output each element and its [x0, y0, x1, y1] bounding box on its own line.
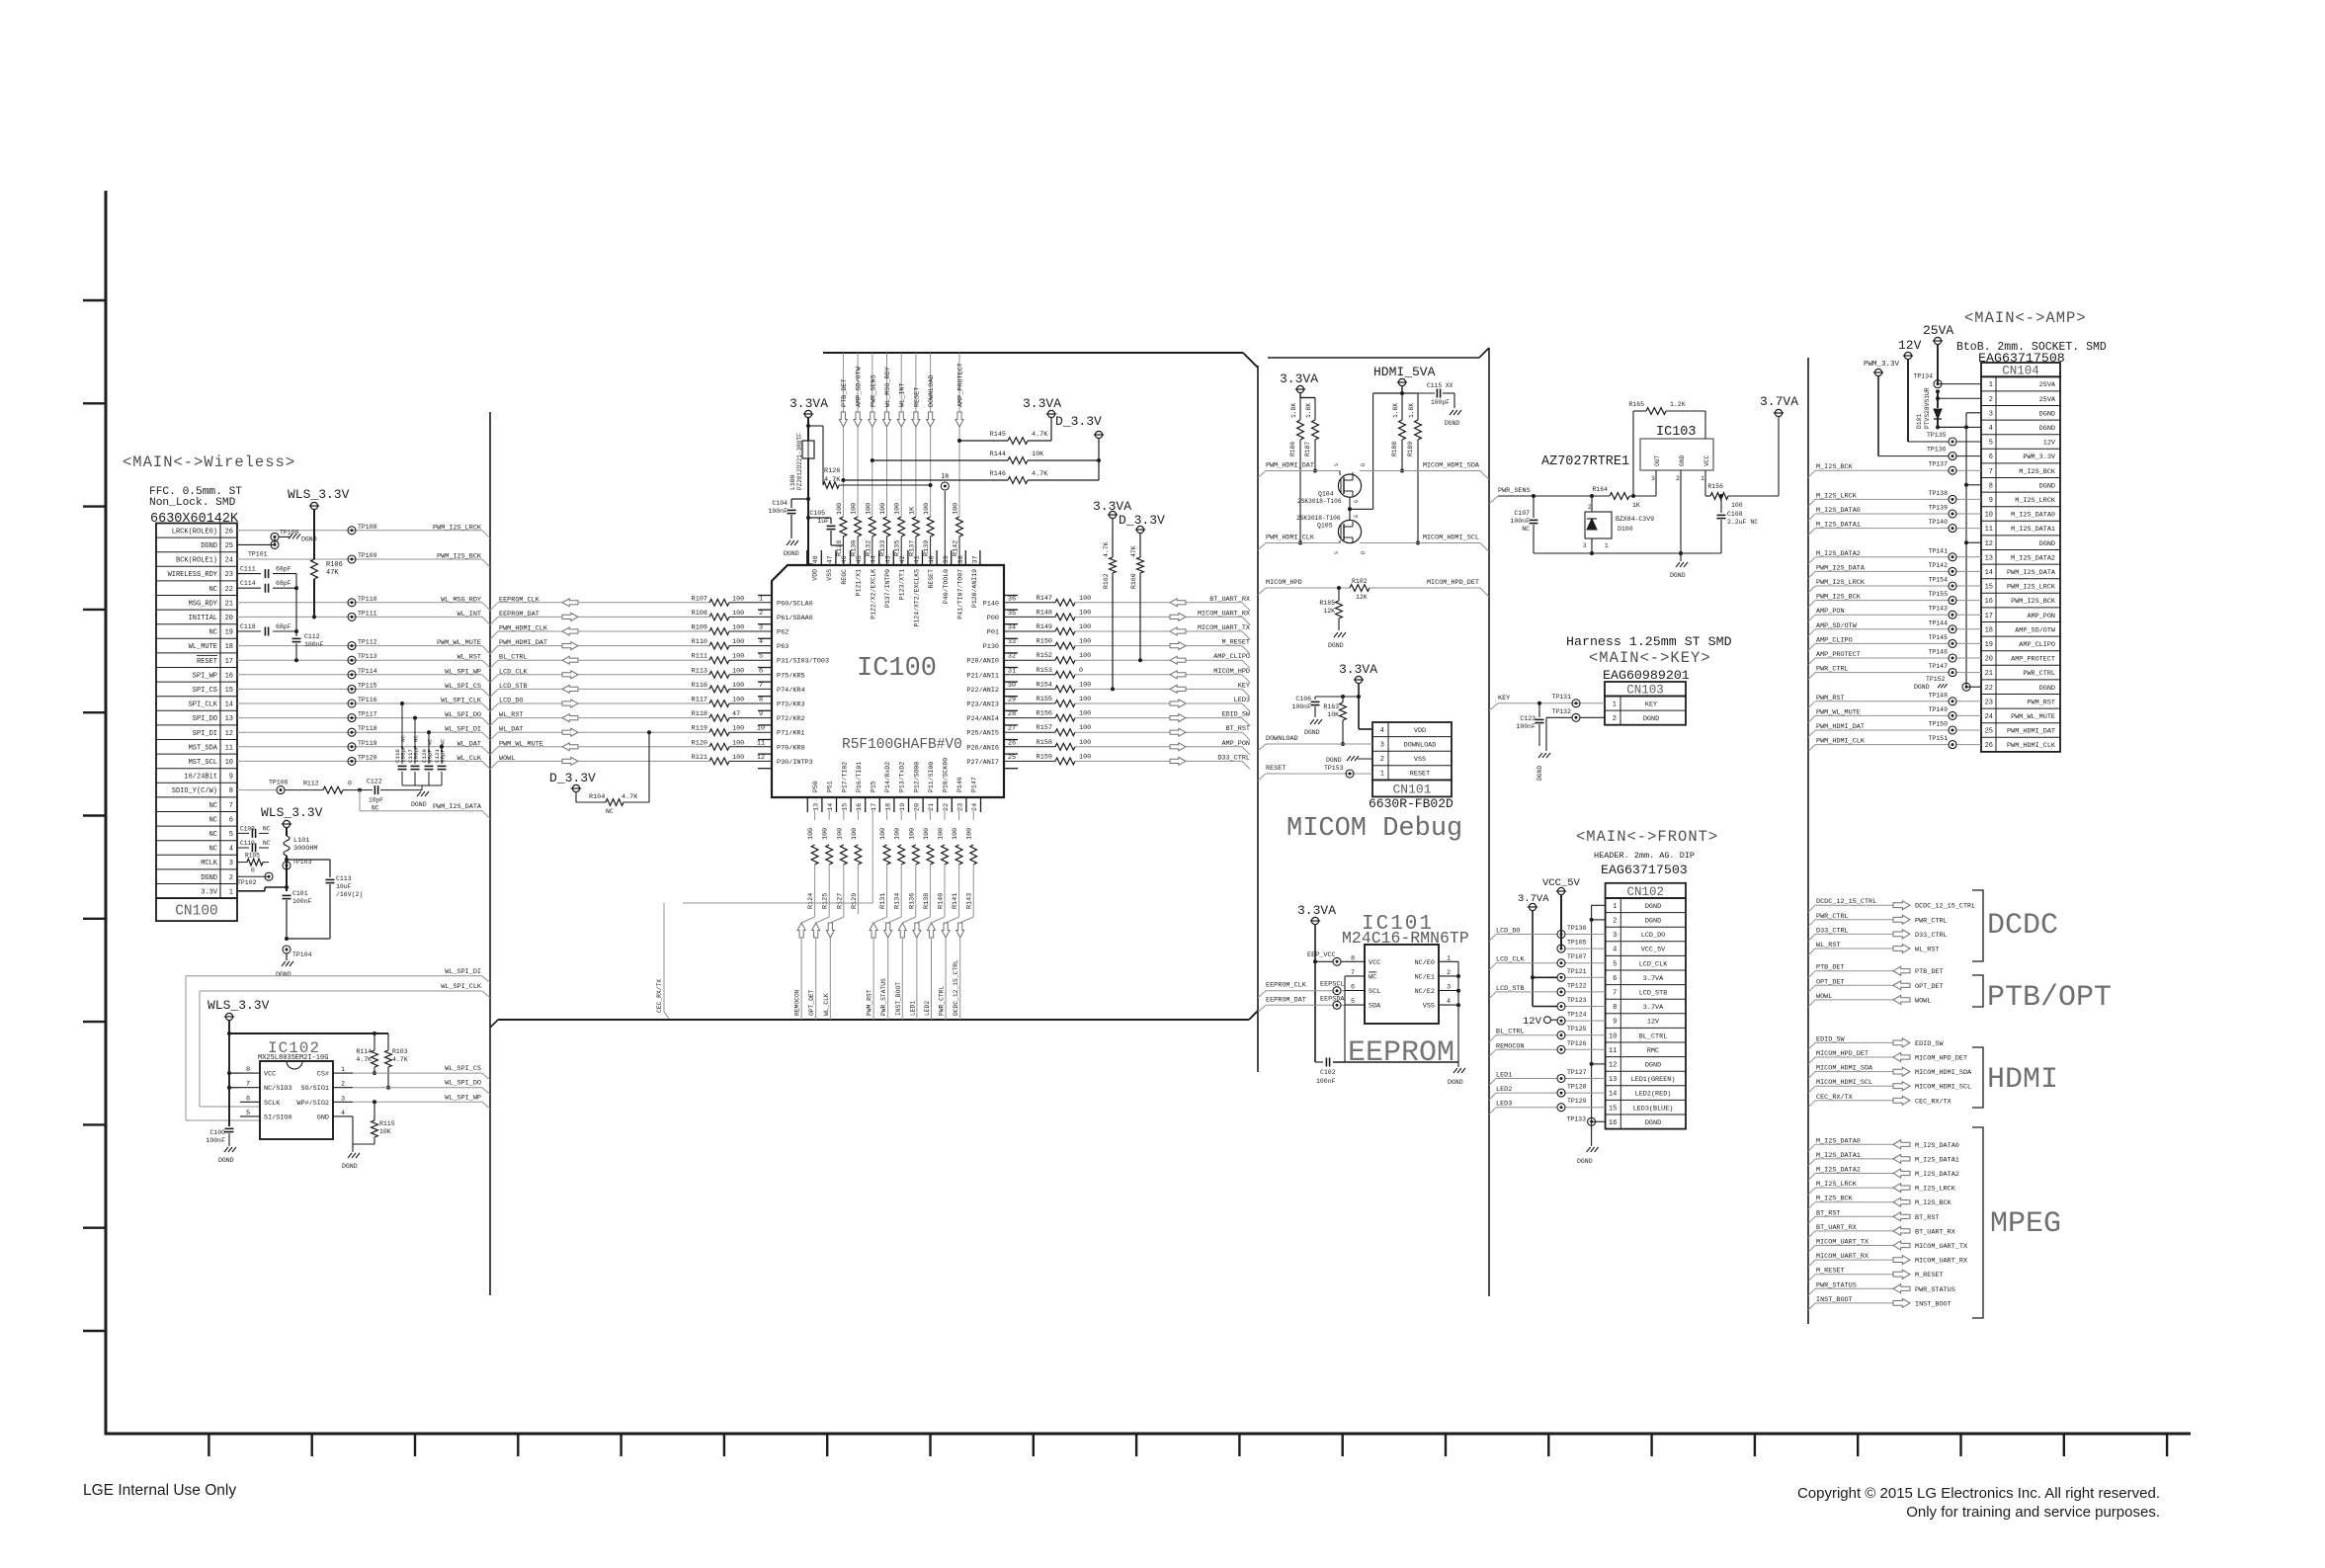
wire diagonal PWR_CTRL from resistor column: [946, 914, 959, 923]
power 3.3VA right of top columns: [1023, 396, 1061, 418]
svg-text:CEC_RX/TX: CEC_RX/TX: [656, 979, 663, 1013]
svg-text:VSS: VSS: [826, 569, 833, 581]
svg-text:R147: R147: [1037, 595, 1052, 603]
svg-text:22: 22: [1985, 685, 1993, 693]
svg-text:P74/KR4: P74/KR4: [777, 687, 805, 695]
wire net WOWL from wireless border: [490, 755, 562, 770]
svg-text:TP141: TP141: [1928, 547, 1948, 554]
svg-text:C105: C105: [809, 510, 825, 517]
svg-text:NC: NC: [263, 840, 271, 847]
section title MAIN-KEY: [1589, 649, 1711, 667]
svg-text:24: 24: [971, 803, 979, 811]
svg-text:68pF: 68pF: [276, 566, 291, 573]
svg-text:PWM_I2S_LRCK: PWM_I2S_LRCK: [2007, 584, 2056, 592]
svg-text:22: 22: [943, 803, 951, 811]
testpoint TP115: [348, 682, 377, 693]
svg-text:NC: NC: [263, 825, 271, 832]
svg-text:28: 28: [1008, 710, 1016, 718]
wire MICOM_HDMI_SDA: [1360, 462, 1489, 480]
svg-text:100: 100: [732, 595, 744, 603]
svg-text:VCC: VCC: [1703, 454, 1710, 466]
footer text LGE Internal Use Only: [83, 1482, 236, 1499]
testpoint TP138: [1928, 490, 1956, 504]
wire LCD_CLK to resistor R113: [578, 674, 709, 676]
svg-text:TP112: TP112: [358, 639, 377, 646]
svg-text:BL_CTRL: BL_CTRL: [1639, 1032, 1668, 1040]
svg-text:AZ7027RTRE1: AZ7027RTRE1: [1541, 454, 1629, 469]
svg-text:21: 21: [225, 600, 233, 608]
svg-text:100: 100: [732, 667, 744, 675]
wire net PWM_HDMI_CLK to CN104 pin 26: [1808, 738, 1981, 752]
svg-text:R109: R109: [692, 624, 707, 632]
testpoint TP137: [1928, 461, 1956, 475]
capacitor C120 68pF NC: [421, 730, 434, 785]
svg-text:R112: R112: [303, 781, 319, 787]
svg-text:SO/SIO1: SO/SIO1: [300, 1085, 329, 1093]
wire net DCDC_12_15_CTRL to bottom bus: [953, 938, 960, 1020]
svg-text:R144: R144: [990, 451, 1006, 458]
resistor R146 4.7K: [841, 458, 1101, 483]
transistor Q105 2SK3018-T106: [1296, 515, 1367, 554]
svg-text:R120: R120: [692, 739, 707, 747]
svg-text:25VA: 25VA: [2039, 396, 2056, 404]
svg-text:D_3.3V: D_3.3V: [1119, 513, 1165, 528]
svg-text:CN100: CN100: [175, 904, 218, 920]
svg-text:LCD_STB: LCD_STB: [1639, 990, 1668, 998]
svg-text:PWM_HDMI_CLK: PWM_HDMI_CLK: [1266, 535, 1315, 542]
svg-text:7: 7: [229, 802, 233, 810]
label EEPROM big: [1348, 1036, 1454, 1070]
wire PWM_HDMI_DAT to resistor R110: [578, 645, 709, 647]
svg-text:DGND: DGND: [201, 542, 217, 550]
svg-text:16/24Bit: 16/24Bit: [184, 774, 217, 782]
testpoint TP104: [283, 946, 312, 958]
testpoint TP120: [348, 754, 377, 765]
testpoint TP106: [269, 780, 289, 794]
svg-text:100: 100: [732, 739, 744, 747]
arrow chevron MICOM_HPD_DET: [1893, 1053, 1910, 1062]
svg-text:WL_RST: WL_RST: [457, 654, 481, 662]
arrow chevron OPT_DET: [1893, 981, 1910, 990]
svg-text:37: 37: [972, 555, 980, 563]
svg-text:WL_SPI_DO: WL_SPI_DO: [445, 1080, 481, 1088]
svg-text:P31/SI03/TO03: P31/SI03/TO03: [777, 658, 829, 666]
svg-text:R133: R133: [879, 540, 887, 556]
resistor R127 100: [836, 810, 847, 914]
ground DGND below IC103: [1670, 562, 1688, 579]
wire CN102 pin 10 TP125: [1489, 1029, 1606, 1042]
testpoint TP132: [1551, 708, 1580, 721]
svg-text:3.3VA: 3.3VA: [1297, 903, 1336, 918]
testpoint TP105: [1557, 940, 1587, 953]
wire WL_SPI_CLK routing loop: [200, 983, 490, 1107]
wire CN102 pin 13 TP127: [1489, 1072, 1606, 1086]
svg-text:R114: R114: [356, 1048, 372, 1055]
svg-text:RESET: RESET: [913, 387, 921, 407]
svg-text:20: 20: [225, 615, 233, 622]
arrow chevron DCDC_12_15_CTRL: [1893, 901, 1910, 910]
svg-text:47K: 47K: [326, 569, 339, 577]
svg-text:P00: P00: [987, 615, 999, 622]
svg-text:WL_SPI_DO: WL_SPI_DO: [445, 711, 481, 719]
svg-text:12V: 12V: [1898, 338, 1922, 353]
resistor R153 0: [1004, 667, 1083, 678]
testpoint TP154: [1928, 577, 1956, 591]
svg-text:REMOCON: REMOCON: [794, 989, 801, 1016]
wire section border left (wireless bus): [489, 412, 491, 1295]
svg-text:LED3: LED3: [1234, 697, 1250, 704]
svg-text:AMP_SD/OTW: AMP_SD/OTW: [856, 366, 864, 407]
svg-text:100: 100: [894, 503, 902, 515]
wire PWM_HDMI_CLK: [1258, 535, 1340, 550]
svg-text:PWM_I2S_BCK: PWM_I2S_BCK: [437, 553, 482, 561]
svg-text:R125: R125: [822, 893, 830, 909]
svg-text:3.3V: 3.3V: [201, 888, 218, 896]
arrow chevron D33_CTRL: [1170, 757, 1186, 765]
wire net WL_RST (to DCDC): [1808, 942, 1939, 955]
ground DGND below IC102 pin4: [342, 1153, 360, 1170]
svg-text:R143: R143: [966, 893, 974, 909]
wire net LED2 to bottom bus: [924, 938, 932, 1020]
svg-text:SCL: SCL: [1369, 988, 1380, 996]
svg-text:MICOM Debug: MICOM Debug: [1287, 814, 1462, 844]
testpoint TP143: [1928, 606, 1956, 619]
svg-text:12: 12: [1609, 1062, 1617, 1070]
svg-text:13: 13: [1609, 1076, 1617, 1084]
resistor R136 100: [908, 810, 919, 914]
svg-text:14: 14: [1609, 1091, 1617, 1099]
testpoint TP131: [1551, 694, 1580, 707]
svg-text:1: 1: [229, 888, 233, 896]
svg-text:2: 2: [1989, 396, 1993, 404]
svg-text:12V: 12V: [1647, 1019, 1660, 1027]
wire net WL_DAT from wireless border: [490, 726, 562, 741]
svg-text:3: 3: [229, 860, 233, 867]
resistor R132 100: [865, 503, 877, 565]
resistor R104 4.7K NC: [576, 730, 651, 815]
svg-text:8: 8: [1989, 482, 1993, 490]
resistor R157 100: [1004, 724, 1091, 735]
wire net PWM_HDMI_DAT from wireless border: [490, 639, 562, 654]
svg-text:100: 100: [1079, 638, 1091, 646]
wire BT_UART_RX to border: [1075, 596, 1258, 611]
svg-text:R127: R127: [836, 893, 844, 909]
resistor R135 100: [894, 503, 907, 565]
svg-text:P12/SO00: P12/SO00: [913, 762, 920, 792]
svg-text:TP117: TP117: [358, 711, 377, 718]
svg-text:C100: C100: [209, 1129, 225, 1136]
wire net AMP_SD/OTW from top bus: [856, 353, 864, 517]
resistor R141 100: [952, 810, 962, 914]
svg-text:25: 25: [1985, 728, 1993, 736]
capacitor C111 68pF: [237, 566, 296, 579]
wire MICOM_HPD: [1258, 579, 1350, 595]
svg-text:MICOM_HDMI_SCL: MICOM_HDMI_SCL: [1915, 1084, 1971, 1092]
wire CN102 pin 11 TP126: [1489, 1042, 1606, 1056]
testpoint TP112: [348, 639, 377, 650]
arrow chevron BT_RST: [1170, 728, 1186, 736]
svg-text:11: 11: [225, 744, 233, 752]
svg-text:DGND: DGND: [1326, 757, 1342, 764]
svg-text:100: 100: [1079, 595, 1091, 603]
svg-text:TP114: TP114: [358, 668, 377, 675]
wire CN100 pin 16 net WL_SPI_WP: [237, 668, 490, 683]
svg-text:1uF: 1uF: [817, 518, 829, 525]
svg-text:PWM_HDMI_DAT: PWM_HDMI_DAT: [1266, 462, 1314, 470]
svg-text:100: 100: [732, 653, 744, 661]
wire net EDID_SW (to HDMI): [1808, 1035, 1944, 1049]
wire diagonal OPT_DET from resistor column: [816, 914, 830, 923]
svg-text:1: 1: [341, 1066, 345, 1074]
footer copyright line 1: [1797, 1485, 2160, 1502]
svg-text:7: 7: [1613, 990, 1617, 998]
svg-text:TP109: TP109: [358, 552, 377, 559]
resistor R185 12K: [1319, 586, 1342, 630]
svg-text:P123/XT1: P123/XT1: [899, 569, 906, 600]
svg-text:EEPROM_DAT: EEPROM_DAT: [1266, 996, 1306, 1004]
svg-text:DCDC_12_15_CTRL: DCDC_12_15_CTRL: [953, 959, 959, 1016]
svg-text:M_I2S_LRCK: M_I2S_LRCK: [1915, 1186, 1956, 1194]
svg-text:BT_RST: BT_RST: [1226, 725, 1250, 733]
svg-text:3: 3: [1989, 410, 1993, 418]
svg-text:WLS_3.3V: WLS_3.3V: [208, 998, 270, 1013]
svg-text:MICOM_HPD_DET: MICOM_HPD_DET: [1427, 579, 1479, 587]
arrow chevron MICOM_UART_TX: [1170, 627, 1186, 635]
svg-text:P24/ANI4: P24/ANI4: [966, 715, 999, 723]
svg-text:GND: GND: [317, 1114, 329, 1121]
svg-text:P20/ANI0: P20/ANI0: [966, 658, 999, 666]
svg-text:20: 20: [1985, 656, 1993, 664]
svg-text:100: 100: [894, 828, 902, 840]
svg-text:EEPROM: EEPROM: [1348, 1036, 1454, 1070]
capacitor C106 100nF: [1291, 684, 1361, 729]
svg-text:MICOM_HPD: MICOM_HPD: [1266, 579, 1302, 587]
wire 25VA to CN104 pins 1 2: [1936, 345, 1981, 399]
testpoint TP141: [1928, 547, 1956, 561]
svg-text:OPT_DET: OPT_DET: [1915, 983, 1944, 991]
svg-text:PTB/OPT: PTB/OPT: [1987, 981, 2112, 1015]
resistor R124 100: [807, 810, 818, 914]
svg-text:R156: R156: [1037, 710, 1052, 718]
svg-text:TP140: TP140: [1928, 519, 1948, 526]
resistor R133 100: [879, 503, 892, 565]
svg-text:48: 48: [812, 555, 820, 563]
svg-text:GND: GND: [1679, 454, 1686, 466]
svg-text:0: 0: [348, 781, 352, 787]
capacitor C105 1uF: [806, 510, 843, 553]
svg-text:PWM_RST: PWM_RST: [2027, 699, 2055, 706]
svg-text:DOWNLOAD: DOWNLOAD: [1266, 735, 1298, 743]
svg-text:TP149: TP149: [1928, 706, 1948, 713]
svg-text:P72/KR2: P72/KR2: [777, 715, 805, 723]
connector CN103: [1605, 682, 1686, 725]
wire diagonal LED1 from resistor column: [917, 914, 931, 923]
arrow chevron M_I2S_LRCK: [1893, 1184, 1910, 1193]
svg-text:P71/KR1: P71/KR1: [777, 730, 805, 738]
svg-text:RESET: RESET: [928, 569, 935, 589]
svg-text:RMC: RMC: [1647, 1047, 1659, 1055]
svg-text:100: 100: [879, 503, 887, 515]
svg-text:3: 3: [1380, 742, 1384, 750]
svg-text:MICOM_HDMI_SDA: MICOM_HDMI_SDA: [1423, 462, 1480, 470]
svg-text:P13/TxD2: P13/TxD2: [899, 762, 906, 792]
svg-text:8: 8: [759, 697, 763, 704]
svg-text:D101: D101: [1916, 414, 1923, 429]
svg-text:TP144: TP144: [1928, 619, 1948, 626]
svg-text:R152: R152: [1037, 652, 1052, 660]
wire CN100 pin 10 net WL_CLK: [237, 755, 490, 770]
svg-text:12K: 12K: [1323, 608, 1335, 615]
svg-text:L101: L101: [293, 837, 309, 845]
arrow chevron EEPROM_CLK: [562, 599, 578, 607]
svg-text:3.7VA: 3.7VA: [1643, 1004, 1664, 1012]
svg-text:12V: 12V: [1523, 1016, 1542, 1028]
svg-text:11: 11: [1609, 1047, 1617, 1055]
svg-text:100: 100: [953, 503, 960, 515]
svg-text:P14/RxD2: P14/RxD2: [884, 762, 891, 792]
svg-text:NC/SIO3: NC/SIO3: [264, 1085, 292, 1093]
wire net PWM_RST to CN104 pin 23: [1808, 695, 1981, 708]
svg-text:DGND: DGND: [1670, 572, 1686, 579]
svg-text:P30/INTP3: P30/INTP3: [777, 759, 813, 767]
svg-text:NC: NC: [209, 802, 217, 810]
svg-text:2: 2: [1447, 969, 1451, 977]
svg-text:TP125: TP125: [1567, 1026, 1587, 1032]
svg-text:4.7K: 4.7K: [1103, 541, 1110, 557]
svg-text:BT_UART_RX: BT_UART_RX: [1915, 1228, 1955, 1236]
svg-text:39: 39: [943, 555, 951, 563]
wire CN102 pin 15 TP129: [1489, 1101, 1606, 1114]
svg-text:TP122: TP122: [1567, 982, 1587, 989]
wire net WL_RST from wireless border: [490, 711, 562, 726]
svg-text:P60/SCLA0: P60/SCLA0: [777, 600, 813, 608]
svg-text:TP108: TP108: [358, 524, 377, 531]
svg-text:D33_CTRL: D33_CTRL: [1217, 754, 1250, 762]
wire net PWM_WL_MUTE to CN104 pin 24: [1808, 708, 1981, 722]
arrow chevron LED3: [1170, 700, 1186, 707]
svg-text:DGND: DGND: [2039, 425, 2055, 433]
svg-text:TP106: TP106: [269, 780, 289, 786]
svg-text:LED2: LED2: [924, 1001, 931, 1016]
svg-text:C115 XX: C115 XX: [1427, 382, 1453, 389]
svg-text:BT_UART_RX: BT_UART_RX: [1209, 596, 1250, 604]
wire KEY to CN103 pin1: [1489, 695, 1605, 710]
svg-text:R135: R135: [894, 540, 902, 556]
power 3.3VA (level shifter): [1280, 371, 1318, 393]
svg-text:2: 2: [1613, 918, 1617, 926]
testpoint TP110: [348, 596, 377, 607]
svg-text:DOWNLOAD: DOWNLOAD: [928, 374, 936, 407]
power 3.3VA (eeprom): [1297, 903, 1336, 925]
arrow chevron BT_UART_RX: [1893, 1226, 1910, 1235]
svg-text:17: 17: [1985, 613, 1993, 620]
svg-text:TP150: TP150: [1928, 721, 1948, 728]
svg-text:WLS_3.3V: WLS_3.3V: [288, 487, 350, 502]
wire net INST_BOOT to bottom bus: [895, 938, 903, 1020]
svg-text:24: 24: [225, 557, 233, 565]
svg-text:TP152: TP152: [1926, 676, 1946, 683]
svg-text:PWR_CTRL: PWR_CTRL: [2023, 670, 2055, 678]
wire EEPROM_CLK EEPSCL: [1258, 981, 1345, 998]
svg-text:R102: R102: [1352, 578, 1368, 585]
testpoint TP151: [1928, 735, 1956, 749]
wire net DOWNLOAD from top bus: [928, 353, 936, 517]
wire net WL_INT from top bus: [899, 353, 907, 517]
svg-text:TP134: TP134: [1913, 373, 1933, 380]
svg-text:DGND: DGND: [2039, 685, 2055, 693]
wire CN102 pin 3 TP130: [1489, 928, 1606, 942]
svg-text:100nF: 100nF: [206, 1137, 225, 1144]
svg-text:R154: R154: [1037, 681, 1052, 689]
svg-text:R185: R185: [1319, 600, 1335, 607]
svg-text:TP138: TP138: [1928, 490, 1948, 497]
svg-text:RESET: RESET: [197, 658, 217, 666]
arrow chevron MICOM_HDMI_SCL: [1893, 1082, 1910, 1091]
pin dividers on IC100 left and right edges: [758, 596, 1018, 769]
wire Q104 gate: [1349, 497, 1351, 520]
arrow chevron LED2: [928, 923, 936, 938]
svg-text:VDD: VDD: [1414, 727, 1426, 735]
testpoint TP148: [1928, 692, 1956, 705]
svg-text:R140: R140: [938, 893, 946, 909]
svg-text:4: 4: [1613, 947, 1617, 954]
svg-text:100: 100: [1079, 696, 1091, 703]
svg-text:C101: C101: [292, 890, 308, 897]
arrow chevron PWR_CTRL: [942, 923, 950, 938]
svg-text:TP143: TP143: [1928, 606, 1948, 613]
power WLS_3.3V (top): [288, 487, 350, 510]
connector CN102 EAG63717503: [1606, 883, 1686, 1129]
svg-text:R160: R160: [1130, 573, 1137, 589]
arrow chevron LCD_DO: [562, 700, 578, 707]
testpoint TP125: [1557, 1026, 1587, 1039]
svg-text:<MAIN<->FRONT>: <MAIN<->FRONT>: [1576, 828, 1718, 846]
ground DGND below C106: [1304, 719, 1322, 736]
svg-text:2: 2: [229, 874, 233, 882]
svg-text:LED3(BLUE): LED3(BLUE): [1633, 1105, 1674, 1113]
svg-text:100: 100: [851, 828, 859, 840]
svg-text:AMP_CLIPO: AMP_CLIPO: [1213, 653, 1250, 661]
svg-text:68pF: 68pF: [276, 623, 291, 630]
label Harness 1.25mm ST SMD: [1566, 634, 1732, 649]
svg-text:68pF: 68pF: [276, 580, 291, 587]
svg-text:PWM_3.3V: PWM_3.3V: [1864, 361, 1900, 369]
arrow chevron KEY: [1170, 685, 1186, 693]
wire CEC_RX/TX to bottom bus: [656, 903, 669, 1019]
resistor R139 100: [923, 503, 936, 565]
svg-text:C108: C108: [1727, 511, 1743, 518]
wire VDD to CN101 pin4: [1359, 728, 1372, 730]
svg-text:WL_DAT: WL_DAT: [457, 740, 481, 748]
svg-text:TP137: TP137: [1928, 461, 1948, 468]
svg-text:DGND: DGND: [276, 971, 291, 978]
svg-text:26: 26: [1985, 742, 1993, 750]
wire net PWR_CTRL to bottom bus: [939, 938, 947, 1020]
svg-text:TP126: TP126: [1567, 1040, 1587, 1047]
wire PWM_HDMI_DAT: [1258, 462, 1340, 478]
svg-text:R121: R121: [692, 754, 707, 762]
svg-text:R128: R128: [836, 540, 844, 556]
svg-text:13: 13: [812, 803, 820, 811]
svg-text:P41/TI07/TO07: P41/TI07/TO07: [957, 569, 964, 619]
svg-text:R142: R142: [953, 540, 960, 556]
svg-text:SDIO_Y(C/W): SDIO_Y(C/W): [172, 787, 217, 795]
svg-text:P27/ANI7: P27/ANI7: [966, 759, 999, 767]
resistor R108 100: [692, 610, 772, 620]
svg-text:TP123: TP123: [1567, 997, 1587, 1004]
svg-text:100: 100: [1731, 502, 1743, 509]
svg-text:R115: R115: [379, 1120, 395, 1127]
